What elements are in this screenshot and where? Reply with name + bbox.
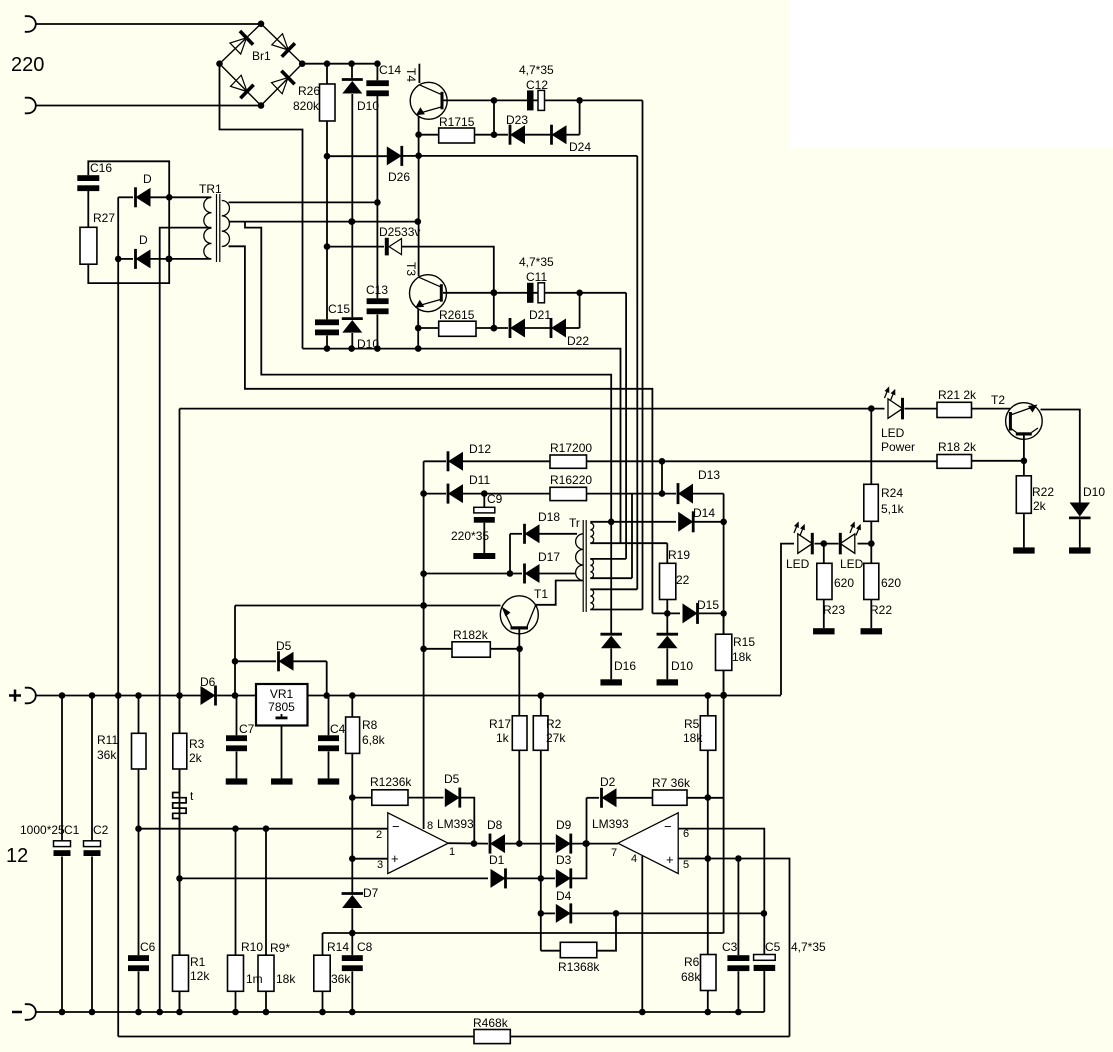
svg-text:2: 2 xyxy=(376,829,382,841)
svg-text:R27: R27 xyxy=(93,211,115,225)
svg-text:D10: D10 xyxy=(357,99,379,113)
svg-text:R7 36k: R7 36k xyxy=(652,776,691,790)
svg-text:36k: 36k xyxy=(331,972,351,986)
svg-text:12k: 12k xyxy=(190,969,210,983)
svg-text:R9*: R9* xyxy=(270,941,290,955)
svg-text:R182k: R182k xyxy=(453,628,489,642)
svg-text:C1: C1 xyxy=(64,823,80,837)
svg-text:D14: D14 xyxy=(693,506,715,520)
svg-text:2k: 2k xyxy=(1033,499,1047,513)
svg-text:TR1: TR1 xyxy=(199,182,222,196)
svg-text:D17: D17 xyxy=(538,550,560,564)
svg-text:D24: D24 xyxy=(569,140,591,154)
svg-text:D16: D16 xyxy=(614,659,636,673)
svg-text:D2533v: D2533v xyxy=(379,225,420,239)
svg-text:R11: R11 xyxy=(97,733,118,747)
svg-text:D5: D5 xyxy=(276,639,292,653)
svg-text:1m: 1m xyxy=(246,972,263,986)
svg-text:27k: 27k xyxy=(546,731,566,745)
svg-text:820k: 820k xyxy=(293,99,320,113)
svg-text:D10: D10 xyxy=(671,659,693,673)
svg-text:220: 220 xyxy=(11,54,44,76)
svg-text:D: D xyxy=(143,172,152,186)
svg-text:R14: R14 xyxy=(327,940,349,954)
svg-text:2k: 2k xyxy=(189,751,203,765)
svg-text:VR1: VR1 xyxy=(270,687,294,701)
svg-text:T3: T3 xyxy=(404,262,418,276)
svg-text:4,7*35: 4,7*35 xyxy=(519,255,554,269)
svg-text:R2: R2 xyxy=(546,717,562,731)
svg-text:R16220: R16220 xyxy=(550,473,592,487)
svg-text:C12: C12 xyxy=(526,78,548,92)
svg-text:5: 5 xyxy=(683,859,689,871)
svg-text:D1: D1 xyxy=(489,853,505,867)
svg-text:R6: R6 xyxy=(684,955,700,969)
svg-text:12: 12 xyxy=(6,845,28,867)
svg-text:T1: T1 xyxy=(534,587,548,601)
svg-text:C6: C6 xyxy=(140,940,156,954)
svg-text:C2: C2 xyxy=(93,823,109,837)
svg-text:D10: D10 xyxy=(1083,485,1105,499)
svg-text:T4: T4 xyxy=(404,68,418,82)
svg-text:36k: 36k xyxy=(97,748,117,762)
svg-text:R1715: R1715 xyxy=(439,115,475,129)
svg-text:R468k: R468k xyxy=(473,1016,509,1030)
svg-text:620: 620 xyxy=(881,576,901,590)
svg-text:D9: D9 xyxy=(556,818,572,832)
svg-text:1000*25: 1000*25 xyxy=(20,823,65,837)
svg-text:C9: C9 xyxy=(487,492,503,506)
svg-text:4,7*35: 4,7*35 xyxy=(519,63,554,77)
svg-text:D4: D4 xyxy=(556,889,572,903)
svg-text:C13: C13 xyxy=(366,283,388,297)
svg-text:R22: R22 xyxy=(870,603,892,617)
svg-text:R1: R1 xyxy=(190,955,206,969)
svg-text:D3: D3 xyxy=(556,853,572,867)
svg-text:R23: R23 xyxy=(823,603,845,617)
svg-text:R3: R3 xyxy=(189,737,205,751)
svg-text:D5: D5 xyxy=(444,772,460,786)
svg-text:4: 4 xyxy=(631,853,637,865)
svg-text:R10: R10 xyxy=(241,940,263,954)
svg-text:C3: C3 xyxy=(722,940,738,954)
svg-text:R17200: R17200 xyxy=(550,441,592,455)
svg-text:R1236k: R1236k xyxy=(370,775,412,789)
svg-text:LM393: LM393 xyxy=(592,817,629,831)
svg-text:D2: D2 xyxy=(600,775,616,789)
svg-text:1k: 1k xyxy=(496,731,510,745)
svg-text:D6: D6 xyxy=(200,675,216,689)
svg-text:D11: D11 xyxy=(469,473,490,487)
svg-text:−: − xyxy=(392,819,400,834)
svg-text:D23: D23 xyxy=(506,113,528,127)
svg-text:C5: C5 xyxy=(765,940,781,954)
svg-text:D21: D21 xyxy=(529,308,551,322)
svg-text:C8: C8 xyxy=(357,940,373,954)
svg-text:C15: C15 xyxy=(328,302,350,316)
svg-text:Br1: Br1 xyxy=(252,49,271,63)
svg-text:C14: C14 xyxy=(379,63,401,77)
svg-text:D10: D10 xyxy=(357,337,379,351)
svg-text:R8: R8 xyxy=(362,718,378,732)
svg-text:D15: D15 xyxy=(697,598,719,612)
svg-text:+: + xyxy=(391,851,399,866)
svg-text:R2615: R2615 xyxy=(439,308,475,322)
svg-text:C16: C16 xyxy=(90,161,112,175)
svg-text:R19: R19 xyxy=(668,548,690,562)
svg-text:220*35: 220*35 xyxy=(451,529,489,543)
svg-text:R26: R26 xyxy=(298,84,320,98)
svg-text:R15: R15 xyxy=(733,635,755,649)
svg-text:LED: LED xyxy=(840,557,864,571)
svg-text:D12: D12 xyxy=(469,442,491,456)
svg-text:18k: 18k xyxy=(276,972,296,986)
svg-text:−: − xyxy=(664,819,672,834)
svg-text:D18: D18 xyxy=(538,510,560,524)
svg-text:5,1k: 5,1k xyxy=(881,502,905,516)
svg-text:D8: D8 xyxy=(487,818,503,832)
svg-text:22: 22 xyxy=(676,573,690,587)
svg-text:D7: D7 xyxy=(363,886,379,900)
svg-text:R24: R24 xyxy=(881,486,903,500)
svg-text:D13: D13 xyxy=(698,468,720,482)
svg-text:C11: C11 xyxy=(526,270,547,284)
svg-text:+: + xyxy=(666,852,674,867)
svg-text:LED: LED xyxy=(786,557,810,571)
svg-text:Tr: Tr xyxy=(569,516,580,530)
svg-text:LED: LED xyxy=(881,426,905,440)
svg-text:Power: Power xyxy=(881,440,915,454)
svg-text:C7: C7 xyxy=(239,722,255,736)
svg-text:R21 2k: R21 2k xyxy=(938,388,977,402)
svg-text:6,8k: 6,8k xyxy=(362,733,386,747)
svg-text:LM393: LM393 xyxy=(437,817,474,831)
svg-text:R1368k: R1368k xyxy=(558,960,600,974)
svg-text:R18 2k: R18 2k xyxy=(938,440,977,454)
svg-text:T2: T2 xyxy=(991,393,1005,407)
svg-text:68k: 68k xyxy=(681,970,701,984)
svg-text:18k: 18k xyxy=(683,731,703,745)
svg-text:D26: D26 xyxy=(388,170,410,184)
svg-text:6: 6 xyxy=(683,828,689,840)
svg-text:3: 3 xyxy=(377,859,383,871)
svg-text:D22: D22 xyxy=(567,334,589,348)
svg-text:C4: C4 xyxy=(330,722,346,736)
svg-text:R5: R5 xyxy=(684,717,700,731)
svg-text:620: 620 xyxy=(834,576,854,590)
svg-text:R17: R17 xyxy=(489,717,511,731)
svg-text:4,7*35: 4,7*35 xyxy=(791,940,826,954)
svg-text:R22: R22 xyxy=(1032,485,1054,499)
svg-text:7805: 7805 xyxy=(268,700,295,714)
svg-text:8: 8 xyxy=(427,820,433,832)
svg-text:18k: 18k xyxy=(732,650,752,664)
svg-text:1: 1 xyxy=(449,846,455,858)
svg-text:7: 7 xyxy=(611,847,617,859)
svg-text:D: D xyxy=(139,233,148,247)
